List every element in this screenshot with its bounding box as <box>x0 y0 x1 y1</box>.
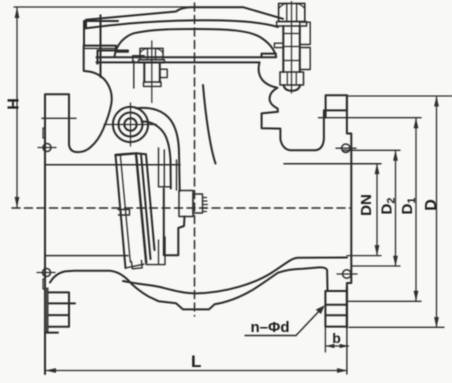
svg-text:DN: DN <box>358 194 375 216</box>
svg-text:L: L <box>191 352 201 371</box>
hinge boss circles <box>113 107 148 142</box>
svg-text:H: H <box>6 98 23 110</box>
body outline bottom <box>50 267 328 309</box>
svg-text:D1: D1 <box>399 198 418 215</box>
cover plate (rocker bar on top) <box>86 7 283 28</box>
leader n-phi-d <box>245 335 296 337</box>
bolt B2 shank <box>282 26 284 72</box>
dim H line <box>14 7 243 207</box>
dim D2 line <box>343 150 400 266</box>
svg-text:D2: D2 <box>379 198 398 215</box>
svg-text:b: b <box>332 330 341 346</box>
disc bottom tab <box>131 261 142 269</box>
flange F2 (right) top tab <box>326 95 347 117</box>
flange F1 bottom ladder <box>45 292 75 332</box>
body outline right side <box>259 62 347 150</box>
dim b line <box>326 345 349 347</box>
bolt B2 bottom nut <box>280 72 304 85</box>
bolt B2 (right cover bolt, top nut) <box>279 3 305 21</box>
node mark right top <box>342 144 350 152</box>
disc nut <box>179 191 193 217</box>
bonnet dome <box>115 29 277 57</box>
body inner floor <box>123 258 347 294</box>
disc plate <box>116 155 126 268</box>
left arm arch <box>69 45 112 152</box>
bore top line left <box>45 164 180 166</box>
bore bottom line left <box>45 255 128 257</box>
bonnet flange <box>98 51 129 64</box>
svg-text:n–Φd: n–Φd <box>251 319 290 336</box>
node mark left top <box>43 144 51 152</box>
centerline horizontal <box>12 207 351 209</box>
bolt B1 (left cover bolt) <box>140 48 163 59</box>
bore bottom ext right <box>347 255 381 257</box>
bolt B2 washer <box>277 22 307 26</box>
bore top line right <box>284 163 381 165</box>
node mark right bottom <box>343 270 351 278</box>
node mark left bottom <box>43 269 51 277</box>
disc back bracket <box>118 210 130 216</box>
centerline vertical <box>194 3 196 316</box>
flange F2 face <box>347 95 351 287</box>
arm holder step <box>164 189 185 256</box>
dim L line <box>46 370 347 372</box>
chamber right wall <box>203 85 216 164</box>
dim D line <box>347 96 452 327</box>
dim DN line <box>376 164 378 255</box>
flange F2 bottom ladder <box>325 291 347 327</box>
bracket (left end block of cover plate) <box>84 21 128 52</box>
svg-text:D: D <box>423 199 440 211</box>
bolt B2 side plates <box>300 22 310 44</box>
hinge arm <box>136 108 180 191</box>
flange F1 (left) <box>44 94 46 374</box>
flange F1 bottom hatched band <box>45 288 48 334</box>
bracket stud line <box>100 15 102 77</box>
dim D1 line <box>319 118 422 302</box>
